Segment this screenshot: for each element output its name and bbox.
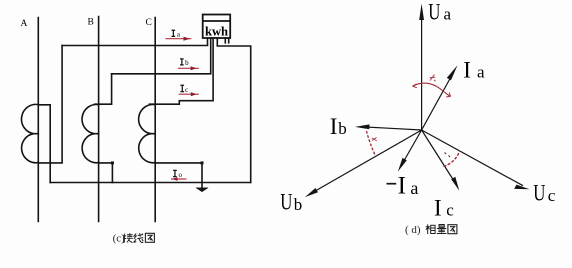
wire row3 Ic with jog to meter pin3 <box>149 38 213 104</box>
label Ua <box>428 0 441 25</box>
wire row2 Ib to meter pin2 <box>112 38 211 74</box>
svg-text:U: U <box>533 181 546 206</box>
wire row1 Ia to meter pin1 <box>62 38 207 46</box>
wire: CT A K2 bottom to row1 riser <box>38 46 62 163</box>
vector Ia shaft <box>422 75 452 130</box>
current label Ia <box>166 30 192 41</box>
svg-text:I: I <box>398 173 406 200</box>
kWh meter box <box>203 15 231 39</box>
arrowhead Ua <box>419 4 424 21</box>
arrowhead Ib <box>355 124 370 129</box>
caption (c) jiexiantu <box>113 232 155 244</box>
wire: CT B K1 top to row2 riser <box>95 74 112 104</box>
current label Ic <box>179 85 199 96</box>
svg-text:c: c <box>548 186 556 205</box>
svg-text:c: c <box>185 86 188 94</box>
arrowhead -Ia <box>398 158 407 172</box>
current label Io <box>171 170 187 181</box>
red angle glyph (Ic-Uc) <box>445 153 451 158</box>
phase line A <box>37 18 39 222</box>
svg-text:I: I <box>463 57 471 82</box>
svg-text:C: C <box>146 18 152 28</box>
svg-text:a: a <box>444 5 452 24</box>
red angle arc Ua-Ia <box>413 83 451 97</box>
ground symbol <box>196 188 208 192</box>
svg-text:b: b <box>185 59 189 67</box>
svg-text:b: b <box>294 195 303 214</box>
meter stub pin 5 <box>224 38 226 43</box>
red angle glyph (Ib-Ub) <box>372 138 377 141</box>
arrowhead Uc <box>514 185 529 190</box>
red angle arc Ic-Uc (dashed) <box>444 151 460 167</box>
meter stub pin 6 <box>228 38 230 43</box>
junction dot C K2 / ground <box>201 161 204 164</box>
svg-text:kwh: kwh <box>205 25 228 39</box>
meter right return wire <box>217 38 250 183</box>
red angle glyph phi (Ua-Ia) <box>430 75 436 82</box>
label -Ia <box>387 183 397 185</box>
svg-text:a: a <box>477 63 485 82</box>
current label Ib <box>178 59 199 71</box>
wire: CT C K2 bottom to ground node <box>155 163 202 188</box>
phase line C <box>154 18 156 222</box>
CT coil B <box>82 104 99 162</box>
label Uc <box>533 181 546 206</box>
ground bottom bus wire <box>50 182 251 184</box>
junction dot B K2 <box>111 161 114 164</box>
CT coil C <box>139 104 156 162</box>
wire: CT B K2 bottom to ground bus <box>99 163 113 183</box>
vector Ib shaft <box>362 127 422 130</box>
vector -Ia shaft <box>401 130 422 166</box>
arrowhead Ia <box>447 65 458 80</box>
svg-text:I: I <box>330 114 338 139</box>
phase line B <box>98 17 100 222</box>
svg-text:( d): ( d) <box>405 224 421 236</box>
label Ub <box>280 190 293 215</box>
CT coil A (secondary winding bumps) <box>21 104 38 162</box>
arrowhead Ub <box>305 188 318 197</box>
vector Ua shaft <box>421 17 423 130</box>
svg-text:A: A <box>21 19 28 29</box>
svg-text:U: U <box>280 190 293 215</box>
svg-text:c: c <box>446 201 454 220</box>
caption (d) xiangliangtu <box>405 224 457 236</box>
svg-text:U: U <box>428 0 441 25</box>
svg-text:b: b <box>338 119 347 138</box>
vector Ub shaft <box>310 130 422 194</box>
wire: CT A K1 top to down-bus <box>38 105 50 183</box>
svg-text:a: a <box>410 178 418 198</box>
svg-text:I: I <box>434 195 442 220</box>
vector Uc shaft <box>422 130 523 186</box>
vector Ic shaft <box>422 130 454 181</box>
red angle arc Ib-Ub (dashed) <box>367 131 376 156</box>
svg-text:o: o <box>179 171 183 179</box>
arrowhead Ic <box>451 177 459 191</box>
svg-text:B: B <box>88 18 94 28</box>
